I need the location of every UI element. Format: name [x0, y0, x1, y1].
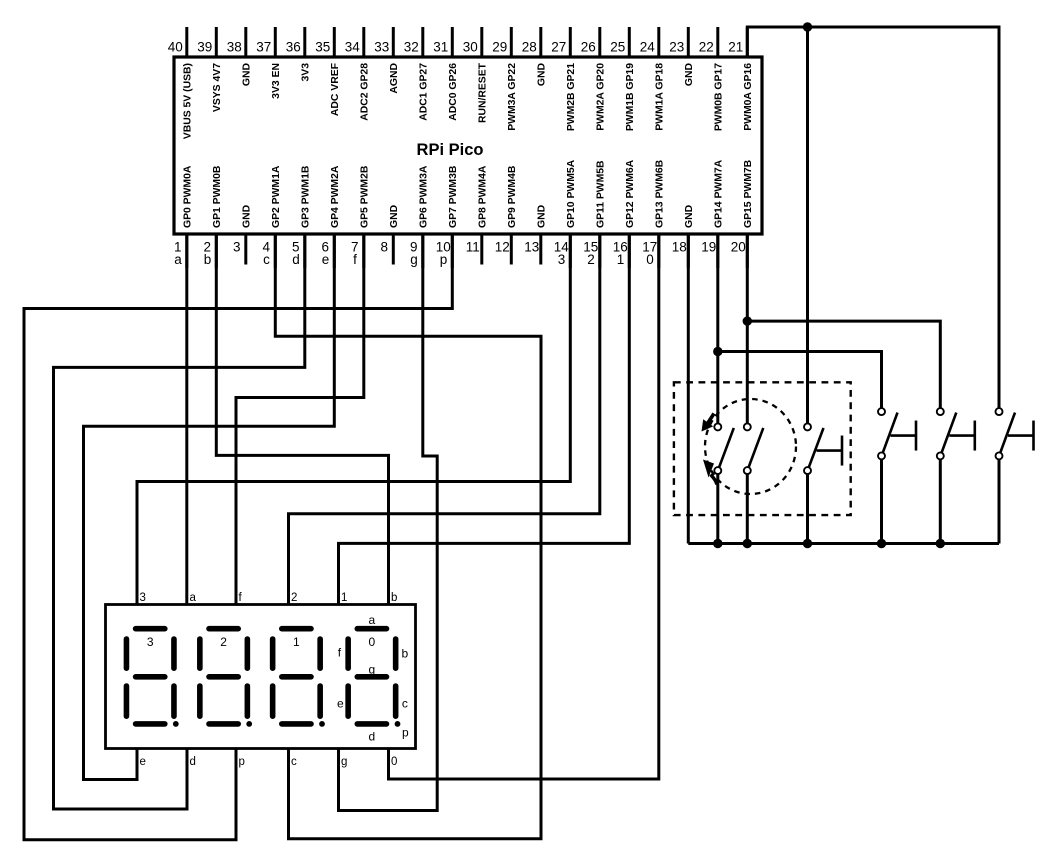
svg-text:p: p: [440, 252, 448, 267]
svg-text:1: 1: [293, 635, 300, 649]
U1 pin 19 GP14 PWM7A: [701, 159, 724, 268]
7-segment display DS1 body: [106, 605, 416, 749]
DS1 digit 3 segments: [126, 629, 174, 724]
U1 pin 23 GND: [669, 27, 695, 86]
svg-text:GP8 PWM4A: GP8 PWM4A: [477, 165, 488, 228]
rotary encoder rotation arrow up: [702, 414, 715, 432]
switch contact encoder C push: [804, 423, 842, 474]
svg-text:PWM0B GP17: PWM0B GP17: [713, 63, 724, 131]
U1 pin 13 GND: [524, 204, 547, 264]
svg-text:11: 11: [466, 239, 480, 254]
svg-text:GND: GND: [684, 204, 695, 228]
svg-text:21: 21: [728, 39, 743, 54]
svg-text:24: 24: [640, 39, 656, 54]
switch contact encoder B: [744, 423, 764, 474]
DS1 segment label c: [402, 697, 408, 711]
svg-text:GND: GND: [684, 63, 695, 87]
wire segment f: U1 pin7 to DS1 pin f: [236, 234, 364, 605]
DS1 top pin 3: [140, 592, 146, 604]
DS1 bottom pin d: [190, 756, 196, 768]
junction on ground bus: [877, 539, 886, 548]
U1 pin 26 PWM2A GP20: [581, 27, 607, 131]
svg-text:13: 13: [524, 239, 539, 254]
U1 pin 4 GP2 PWM1A: [263, 165, 282, 268]
svg-text:39: 39: [197, 39, 212, 54]
svg-text:d: d: [292, 252, 300, 267]
U1 pin 8 GND: [381, 204, 400, 264]
U1 pin 2 GP1 PWM0B: [204, 165, 223, 268]
svg-text:GP0 PWM0A: GP0 PWM0A: [182, 165, 193, 228]
svg-text:p: p: [402, 726, 409, 740]
svg-text:a: a: [174, 252, 182, 267]
svg-text:GP7 PWM3B: GP7 PWM3B: [448, 165, 459, 228]
rotary encoder rotation arrow down: [703, 460, 717, 485]
svg-text:PWM0A GP16: PWM0A GP16: [743, 63, 754, 131]
svg-text:2: 2: [587, 252, 595, 267]
svg-text:b: b: [402, 647, 409, 661]
svg-text:f: f: [353, 252, 357, 267]
DS1 digit 1 label: [293, 635, 300, 649]
svg-text:VSYS 4V7: VSYS 4V7: [212, 63, 223, 112]
switch contact pushbutton S2: [878, 408, 916, 459]
U1 pin 34 ADC2 GP28: [345, 27, 371, 121]
U1 pin 25 PWM1B GP19: [610, 27, 636, 131]
svg-text:GP13 PWM6B: GP13 PWM6B: [654, 159, 665, 228]
junction on ground bus: [713, 539, 722, 548]
svg-text:p: p: [239, 756, 245, 768]
U1 pin 11 GP8 PWM4A: [466, 165, 489, 264]
svg-text:GP14 PWM7A: GP14 PWM7A: [713, 159, 724, 228]
U1 pin 6 GP4 PWM2A: [322, 165, 341, 268]
svg-text:30: 30: [463, 39, 478, 54]
svg-text:28: 28: [522, 39, 537, 54]
svg-text:GP5 PWM2B: GP5 PWM2B: [359, 165, 370, 228]
DS1 bottom pin g: [341, 756, 347, 768]
wire segment encC: U1 pin21 top to encoder C and S4: [747, 27, 999, 423]
DS1 top pin b: [391, 592, 397, 604]
U1 pin 37 3V3 EN: [256, 27, 282, 99]
svg-text:2: 2: [220, 635, 227, 649]
svg-text:VBUS 5V (USB): VBUS 5V (USB): [182, 63, 193, 139]
svg-text:38: 38: [227, 39, 242, 54]
DS1 top pin f: [239, 592, 243, 604]
svg-text:e: e: [140, 756, 146, 768]
junction on pin20 net: [743, 316, 752, 325]
U1 pin 33 AGND: [374, 27, 400, 94]
svg-text:23: 23: [669, 39, 684, 54]
svg-text:GP4 PWM2A: GP4 PWM2A: [330, 165, 341, 228]
U1 pin 12 GP9 PWM4B: [495, 165, 518, 264]
U1 pin 35 ADC VREF: [315, 27, 341, 116]
svg-text:GND: GND: [536, 63, 547, 87]
DS1 digit 0 segments: [348, 629, 396, 724]
svg-text:32: 32: [404, 39, 419, 54]
wire segment GND: U1 pin18 to ground bus: [687, 234, 690, 544]
svg-text:18: 18: [672, 239, 687, 254]
U1 pin 22 PWM0B GP17: [699, 27, 725, 131]
DS1 segment label a: [369, 613, 376, 627]
junction on ground bus: [743, 539, 752, 548]
svg-text:a: a: [190, 592, 197, 604]
svg-text:d: d: [369, 730, 376, 744]
U1 pin 40 VBUS 5V (USB): [168, 27, 194, 139]
svg-text:a: a: [369, 613, 376, 627]
svg-text:33: 33: [374, 39, 389, 54]
svg-text:GND: GND: [389, 204, 400, 228]
svg-text:29: 29: [492, 39, 507, 54]
svg-text:37: 37: [256, 39, 271, 54]
svg-text:GND: GND: [536, 204, 547, 228]
DS1 bottom pin c: [291, 756, 297, 768]
U1 pin 24 PWM1A GP18: [640, 27, 666, 131]
DS1 segment label p: [402, 726, 409, 740]
DS1 segment label f: [338, 646, 342, 660]
wire segment b: U1 pin2 to DS1 pin b: [216, 234, 388, 605]
wire segment a: U1 pin1 to DS1 pin a: [185, 234, 188, 605]
svg-text:b: b: [204, 252, 212, 267]
DS1 bottom pin 0: [391, 756, 397, 768]
U1 pin 38 GND: [227, 27, 253, 86]
svg-text:GP3 PWM1B: GP3 PWM1B: [300, 165, 311, 228]
svg-text:3V3: 3V3: [300, 63, 311, 82]
junction on ground bus: [936, 539, 945, 548]
svg-text:20: 20: [731, 239, 746, 254]
DS1 bottom pin e: [140, 756, 146, 768]
svg-text:e: e: [337, 697, 344, 711]
svg-text:3: 3: [233, 239, 241, 254]
svg-text:0: 0: [646, 252, 654, 267]
svg-text:31: 31: [433, 39, 448, 54]
svg-text:3V3 EN: 3V3 EN: [271, 63, 282, 99]
U1 pin 5 GP3 PWM1B: [292, 165, 311, 268]
wire segment g: U1 pin9 to DS1 pin g: [339, 234, 438, 811]
wire segment digit1: U1 pin16 to DS1 pin 1: [339, 234, 630, 605]
svg-text:34: 34: [345, 39, 361, 54]
svg-text:g: g: [341, 756, 347, 768]
svg-text:36: 36: [286, 39, 301, 54]
U1 pin 14 GP10 PWM5A: [554, 159, 577, 268]
U1 pin 3 GND: [233, 204, 252, 264]
DS1 digit 1 decimal point: [319, 721, 325, 727]
svg-text:27: 27: [551, 39, 566, 54]
svg-text:GP15 PWM7B: GP15 PWM7B: [743, 159, 754, 228]
U1 pin 9 GP6 PWM3A: [410, 165, 429, 268]
svg-text:c: c: [263, 252, 270, 267]
DS1 digit 1 segments: [273, 629, 321, 724]
junction on pin19 net: [713, 347, 722, 356]
svg-text:b: b: [391, 592, 397, 604]
svg-text:RPi Pico: RPi Pico: [417, 141, 484, 159]
svg-text:GP9 PWM4B: GP9 PWM4B: [507, 165, 518, 228]
wire segment digit2: U1 pin15 to DS1 pin 2: [289, 234, 600, 605]
svg-text:0: 0: [391, 756, 397, 768]
svg-text:e: e: [322, 252, 330, 267]
svg-text:40: 40: [168, 39, 183, 54]
svg-text:c: c: [402, 697, 408, 711]
svg-text:AGND: AGND: [389, 63, 400, 94]
U1 pin 32 ADC1 GP27: [404, 27, 430, 121]
U1 pin 31 ADC0 GP26: [433, 27, 459, 121]
DS1 top pin 1: [341, 592, 347, 604]
svg-text:GP1 PWM0B: GP1 PWM0B: [212, 165, 223, 228]
svg-text:ADC2 GP28: ADC2 GP28: [359, 63, 370, 121]
DS1 bottom pin p: [239, 756, 245, 768]
svg-text:ADC VREF: ADC VREF: [330, 63, 341, 116]
DS1 top pin a: [190, 592, 197, 604]
U1 pin 10 GP7 PWM3B: [436, 165, 459, 268]
U1 pin 30 RUN/RESET: [463, 27, 489, 123]
switch contact pushbutton S4: [996, 408, 1034, 459]
DS1 segment label b: [402, 647, 409, 661]
DS1 segment label g: [369, 663, 376, 677]
svg-text:PWM1B GP19: PWM1B GP19: [625, 63, 636, 131]
svg-text:g: g: [410, 252, 418, 267]
svg-text:12: 12: [495, 239, 510, 254]
svg-text:2: 2: [291, 592, 297, 604]
svg-text:19: 19: [701, 239, 716, 254]
DS1 digit 2 decimal point: [246, 721, 252, 727]
U1 pin 29 PWM3A GP22: [492, 27, 518, 131]
DS1 top pin 2: [291, 592, 297, 604]
svg-text:22: 22: [699, 39, 714, 54]
DS1 digit 3 decimal point: [173, 721, 179, 727]
svg-text:25: 25: [610, 39, 625, 54]
DS1 segment label e: [337, 697, 344, 711]
svg-text:PWM2B GP21: PWM2B GP21: [566, 63, 577, 131]
svg-text:26: 26: [581, 39, 596, 54]
U1 pin 36 3V3: [286, 27, 312, 82]
svg-text:3: 3: [558, 252, 566, 267]
wire segment e: U1 pin6 to DS1 pin e: [84, 234, 335, 780]
svg-text:ADC0 GP26: ADC0 GP26: [448, 63, 459, 121]
svg-text:c: c: [291, 756, 297, 768]
junction on ground bus: [803, 539, 812, 548]
svg-text:g: g: [369, 663, 376, 677]
svg-text:GP6 PWM3A: GP6 PWM3A: [418, 165, 429, 228]
svg-text:3: 3: [140, 592, 146, 604]
DS1 digit 0 label: [369, 635, 376, 649]
switch contact encoder A: [714, 423, 734, 474]
DS1 digit 0 decimal point: [395, 721, 401, 727]
svg-text:GP11 PWM5B: GP11 PWM5B: [595, 160, 606, 228]
U1 pin 16 GP12 PWM6A: [613, 159, 636, 268]
svg-text:PWM2A GP20: PWM2A GP20: [595, 63, 606, 131]
svg-text:PWM3A GP22: PWM3A GP22: [507, 63, 518, 131]
svg-text:8: 8: [381, 239, 389, 254]
svg-text:d: d: [190, 756, 196, 768]
DS1 segment label d: [369, 730, 376, 744]
U1 pin 21 PWM0A GP16: [728, 27, 754, 131]
svg-text:RUN/RESET: RUN/RESET: [477, 62, 488, 123]
U1 pin 39 VSYS 4V7: [197, 27, 223, 112]
U1 pin 7 GP5 PWM2B: [351, 165, 370, 268]
svg-text:3: 3: [147, 635, 154, 649]
U1 pin 20 GP15 PWM7B: [731, 159, 754, 268]
svg-text:GP10 PWM5A: GP10 PWM5A: [566, 159, 577, 228]
DS1 digit 3 label: [147, 635, 154, 649]
IC U1 RPi Pico body: [174, 57, 762, 234]
wire segment p: U1 pin10 to DS1 pin p: [24, 234, 452, 840]
svg-text:GP12 PWM6A: GP12 PWM6A: [625, 159, 636, 228]
DS1 digit 2 segments: [200, 629, 248, 724]
wire segment digit0: U1 pin17 to DS1 pin 0: [389, 234, 659, 779]
junction on pin21 net: [803, 22, 812, 31]
svg-text:35: 35: [315, 39, 330, 54]
svg-text:GND: GND: [241, 63, 252, 87]
svg-text:ADC1 GP27: ADC1 GP27: [418, 63, 429, 121]
svg-text:0: 0: [369, 635, 376, 649]
DS1 digit 2 label: [220, 635, 227, 649]
wire segment encB: U1 pin20 to encoder B and S3: [747, 234, 940, 423]
svg-text:1: 1: [341, 592, 347, 604]
svg-text:1: 1: [617, 252, 625, 267]
U1 pin 17 GP13 PWM6B: [642, 159, 665, 268]
U1 pin 28 GND: [522, 27, 548, 86]
U1 pin 27 PWM2B GP21: [551, 27, 577, 131]
U1 pin 1 GP0 PWM0A: [174, 165, 193, 268]
svg-text:PWM1A GP18: PWM1A GP18: [654, 63, 665, 131]
wire segment digit3: U1 pin14 to DS1 pin 3: [137, 234, 570, 605]
U1 pin 18 GND: [672, 204, 695, 268]
wire segment d: U1 pin5 to DS1 pin d: [54, 234, 305, 809]
svg-text:GP2 PWM1A: GP2 PWM1A: [271, 165, 282, 228]
wire segment encA: U1 pin19 to encoder A and S2: [718, 234, 882, 423]
switch contact pushbutton S3: [937, 408, 975, 459]
svg-text:GND: GND: [241, 204, 252, 228]
U1 pin 15 GP11 PWM5B: [583, 160, 606, 268]
rotary encoder S1 outline: [674, 382, 851, 515]
wire segment c: U1 pin4 to DS1 pin c: [275, 234, 541, 839]
wire ground bus: [688, 459, 999, 543]
